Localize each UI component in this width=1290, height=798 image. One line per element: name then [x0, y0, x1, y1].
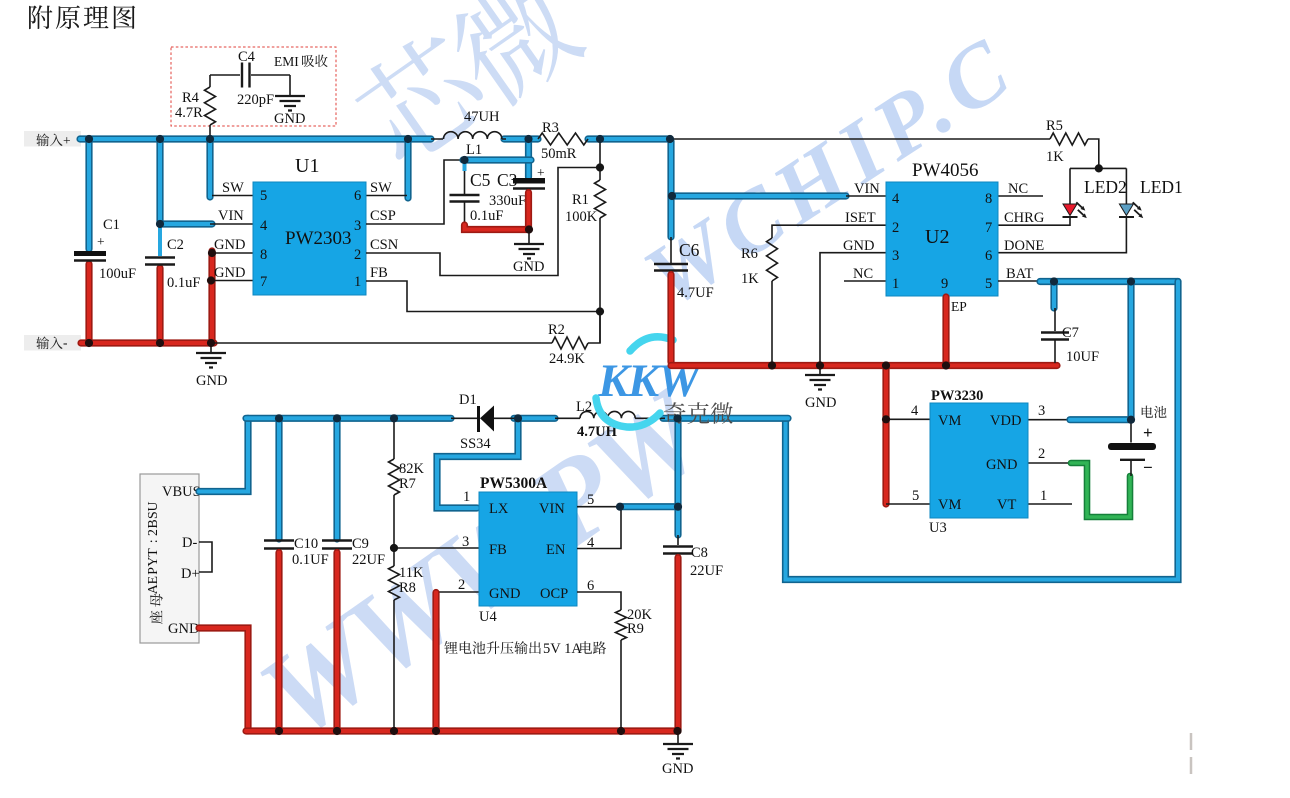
- svg-text:GND: GND: [196, 373, 227, 389]
- wire U2 VIN feed (blue): [671, 192, 846, 199]
- svg-text:3: 3: [892, 248, 899, 264]
- ground GND at input-: [210, 343, 212, 353]
- wire C7 stub (blue): [1050, 282, 1057, 309]
- svg-text:1: 1: [892, 276, 899, 292]
- svg-text:SW: SW: [370, 180, 392, 196]
- svg-text:CSN: CSN: [370, 237, 399, 253]
- svg-text:GND: GND: [805, 395, 836, 411]
- svg-text:PW2303: PW2303: [285, 228, 352, 249]
- svg-text:50mR: 50mR: [541, 146, 577, 162]
- svg-text:VM: VM: [938, 497, 961, 513]
- svg-text:VM: VM: [938, 413, 961, 429]
- thin wire NC pin8: [998, 195, 1043, 197]
- ground below C3: [528, 230, 530, 245]
- svg-text:R9: R9: [627, 621, 644, 637]
- lipo protection U3 PW3230: [930, 403, 1028, 518]
- svg-text:82K: 82K: [399, 461, 425, 477]
- thin wire VT pin1: [1028, 503, 1072, 505]
- svg-text:1: 1: [1040, 488, 1047, 504]
- thin wire VDD pin3: [1028, 419, 1072, 421]
- svg-text:+: +: [63, 133, 71, 148]
- diode D1 SS34: [451, 417, 516, 419]
- wire rail to R5 (thin): [669, 138, 1050, 140]
- svg-text:−: −: [1143, 458, 1153, 477]
- wire CSP tee horizontal (blue): [463, 156, 531, 163]
- title 附原理图: [29, 5, 135, 29]
- thin wire GND pin7: [211, 280, 253, 282]
- wire VDD to battery (blue): [1070, 416, 1129, 423]
- watermark WWW.PWCHIP.C diagonal: [237, 360, 734, 763]
- wire R5 to LED bus: [1070, 139, 1126, 168]
- inductor L2 4.7UH: [555, 417, 665, 419]
- wire C8 top from L2 node (blue): [674, 420, 681, 535]
- wire U1 GND pins (red): [208, 251, 215, 343]
- capacitor C9: [322, 541, 352, 549]
- svg-text:GND: GND: [489, 586, 520, 602]
- svg-text:VIN: VIN: [854, 181, 880, 197]
- wire VIN to C8 (blue): [620, 503, 678, 510]
- wire BAT bus (blue): [1040, 278, 1178, 285]
- svg-text:6: 6: [354, 188, 361, 204]
- svg-text:R2: R2: [548, 322, 565, 338]
- resistor R5 1K: [1050, 133, 1088, 145]
- D-/D+ stub bracket: [199, 542, 212, 572]
- wire USB GND (red): [199, 628, 248, 731]
- wire R2 run from input-: [214, 342, 552, 344]
- svg-text:L2: L2: [576, 399, 592, 415]
- capacitor C10: [264, 541, 294, 549]
- svg-text:4.7R: 4.7R: [175, 105, 203, 121]
- svg-text:5: 5: [912, 488, 919, 504]
- svg-text:GND: GND: [214, 237, 245, 253]
- svg-text:2: 2: [458, 577, 465, 593]
- svg-text:EP: EP: [951, 299, 967, 314]
- svg-text:6: 6: [985, 248, 992, 264]
- wire FB pin1 path: [366, 281, 600, 312]
- thin wire BAT pin5: [998, 280, 1040, 282]
- charger U2 PW4056: [886, 182, 998, 296]
- wire input+ blue rail: [80, 135, 431, 142]
- svg-text:GND: GND: [274, 111, 305, 127]
- svg-text:T: T: [145, 548, 160, 557]
- thin wire VIN pin4: [846, 195, 886, 197]
- svg-text:L1: L1: [466, 142, 482, 158]
- wire C2 bottom (red): [156, 268, 163, 343]
- svg-text:OCP: OCP: [540, 586, 568, 602]
- wire SW pin6 riser: [404, 139, 411, 198]
- battery 电池: [1142, 406, 1167, 418]
- wire rail segment after L1: [504, 135, 538, 142]
- svg-text:U: U: [145, 501, 160, 511]
- capacitor C8: [677, 535, 679, 545]
- page artifact marks: [1190, 733, 1193, 774]
- resistor R1 100K: [595, 180, 606, 218]
- wire C5 bottom to gnd (red): [465, 225, 529, 230]
- EMI snubber box (dashed): [171, 47, 336, 126]
- svg-text:SS34: SS34: [460, 436, 491, 452]
- wire LX feed (blue): [437, 420, 518, 508]
- svg-text:GND: GND: [513, 259, 544, 275]
- wire bottom blue rail: [246, 415, 451, 422]
- svg-text:GND: GND: [662, 761, 693, 777]
- capacitor C6: [670, 237, 672, 263]
- wire CSN pin2 path: [366, 168, 600, 276]
- wire R3 node down to R1: [599, 139, 601, 180]
- svg-text:R4: R4: [182, 90, 200, 106]
- svg-text:VBUS: VBUS: [162, 484, 201, 500]
- svg-text:2: 2: [892, 220, 899, 236]
- wire C10 bottom (red): [275, 553, 282, 732]
- wire C6 branch blue vertical: [667, 141, 674, 237]
- svg-text:C9: C9: [352, 536, 369, 552]
- svg-text:C3: C3: [497, 170, 518, 190]
- svg-text:0.1uF: 0.1uF: [167, 275, 200, 291]
- svg-text:VT: VT: [997, 497, 1016, 513]
- svg-text:330uF: 330uF: [489, 193, 526, 209]
- wire SW node tee (blue): [525, 141, 532, 177]
- svg-text:CSP: CSP: [370, 208, 396, 224]
- svg-text:LX: LX: [489, 501, 509, 517]
- LED2 (red): [1069, 168, 1071, 204]
- svg-text:5V 1A: 5V 1A: [543, 641, 582, 657]
- wire after D1 (blue): [514, 415, 555, 422]
- wire input- red rail: [81, 339, 214, 346]
- svg-text:1K: 1K: [1046, 149, 1064, 165]
- svg-text:NC: NC: [853, 266, 873, 282]
- wire R2 to FB node: [588, 312, 600, 344]
- thin wire GND pin2: [436, 591, 479, 593]
- svg-text:1: 1: [354, 274, 361, 290]
- svg-text:C2: C2: [167, 237, 184, 253]
- thin wire SW pin5: [212, 195, 253, 197]
- wire C2 top stub: [158, 226, 162, 256]
- wire L2 node to loop (blue): [663, 415, 788, 422]
- KKW logo swoosh arcs: [630, 337, 673, 351]
- wire battery + riser (blue): [1127, 282, 1134, 420]
- svg-text:C4: C4: [238, 49, 256, 65]
- wire C8 bottom (red): [674, 558, 681, 732]
- wire battery gnd (green): [1071, 463, 1130, 517]
- wire VBUS (blue): [199, 418, 248, 491]
- wire C1 branch (blue down): [85, 139, 92, 249]
- thin wire GND pin8: [211, 252, 253, 254]
- wire VIN feed: [160, 220, 212, 227]
- capacitor C2: [145, 258, 175, 265]
- svg-text:1: 1: [463, 489, 470, 505]
- resistor R3 50mR: [538, 133, 588, 145]
- svg-text:D+: D+: [181, 566, 200, 582]
- wire C6 bottom (red): [667, 275, 674, 363]
- svg-text:9: 9: [941, 276, 948, 292]
- wire mid red rail: [671, 362, 1057, 369]
- wire SW pin5 branch (blue down): [206, 139, 213, 197]
- wire C1 bottom (red): [85, 264, 92, 343]
- svg-text:11K: 11K: [399, 565, 424, 581]
- inductor L1 47UH: [431, 138, 506, 140]
- wire C10 branch (blue): [275, 418, 282, 539]
- svg-text:Y: Y: [145, 557, 160, 567]
- svg-text:R7: R7: [399, 476, 416, 492]
- ground bottom: [677, 731, 679, 744]
- resistor R2: [552, 337, 588, 349]
- LED1 (blue): [1125, 168, 1127, 204]
- svg-text:D1: D1: [459, 392, 477, 408]
- svg-text:+: +: [1143, 423, 1153, 442]
- svg-text:BAT: BAT: [1006, 266, 1034, 282]
- wire C5 stub (blue): [463, 160, 467, 171]
- wire bottom red rail: [246, 727, 677, 734]
- svg-text:GND: GND: [986, 457, 1017, 473]
- svg-text:U2: U2: [925, 226, 949, 248]
- svg-text:R8: R8: [399, 580, 416, 596]
- thin wire VM pin5: [886, 503, 930, 505]
- resistor R9 20K: [616, 610, 627, 640]
- thin wire VIN pin4: [210, 223, 253, 225]
- svg-text:U1: U1: [295, 155, 319, 177]
- svg-text:5: 5: [985, 276, 992, 292]
- svg-text:LED1: LED1: [1140, 177, 1183, 197]
- resistor R8 11K: [389, 566, 400, 600]
- svg-text:4: 4: [892, 191, 900, 207]
- svg-text:8: 8: [985, 191, 992, 207]
- svg-text:R6: R6: [741, 246, 758, 262]
- ground below U2: [805, 375, 835, 390]
- svg-text:4: 4: [911, 403, 919, 419]
- svg-text:-: -: [63, 335, 68, 350]
- svg-text:100K: 100K: [565, 209, 598, 225]
- connector USB2 TYPEA: [140, 474, 199, 643]
- thin wire EN pin4: [577, 508, 621, 549]
- svg-text:8: 8: [260, 247, 267, 263]
- svg-text:C1: C1: [103, 217, 120, 233]
- svg-text:FB: FB: [489, 542, 507, 558]
- svg-text:1K: 1K: [741, 271, 759, 287]
- wire EP pin9 (red): [942, 297, 949, 363]
- logo text 奇克微: [664, 402, 733, 424]
- svg-text:R5: R5: [1046, 118, 1063, 134]
- svg-text:C5: C5: [470, 170, 491, 190]
- svg-text:3: 3: [462, 534, 469, 550]
- svg-text:GND: GND: [168, 621, 199, 637]
- svg-text:C8: C8: [691, 545, 708, 561]
- svg-text:24.9K: 24.9K: [549, 351, 585, 367]
- svg-text:NC: NC: [1008, 181, 1028, 197]
- svg-text:FB: FB: [370, 265, 388, 281]
- wire C2/VIN branch (blue down): [156, 139, 163, 224]
- svg-text:A: A: [145, 584, 160, 594]
- node 输入+ label: [24, 131, 81, 147]
- svg-text:7: 7: [260, 274, 267, 290]
- svg-text:100uF: 100uF: [99, 266, 136, 282]
- svg-text:PW5300A: PW5300A: [480, 475, 548, 492]
- wire VM feed red vertical: [882, 366, 889, 505]
- resistor R4: [209, 75, 211, 136]
- capacitor C5: [464, 171, 466, 194]
- svg-text:SW: SW: [222, 180, 244, 196]
- op-amp/regulator U1 PW2303: [253, 182, 366, 295]
- wire U4 GND (red): [432, 593, 439, 730]
- thin wire FB pin3: [394, 547, 479, 549]
- wire CSP pin3 path: [366, 160, 463, 224]
- ground of C4: [289, 75, 291, 96]
- thin wire VM pin4: [886, 418, 930, 420]
- svg-text:GND: GND: [214, 265, 245, 281]
- svg-text:VIN: VIN: [539, 501, 565, 517]
- thin wire VIN pin5: [577, 506, 621, 508]
- svg-text:PW4056: PW4056: [912, 160, 979, 181]
- svg-text:B: B: [145, 519, 160, 528]
- wire C9 bottom (red): [333, 553, 340, 732]
- watermark CJK fragment top-left: [345, 0, 591, 172]
- wire C3 bottom (red): [525, 193, 532, 230]
- wire R7 branch: [393, 418, 395, 459]
- resistor R6 1K: [767, 238, 778, 281]
- svg-text:2: 2: [354, 247, 361, 263]
- wire rail segment after R3: [588, 135, 669, 142]
- svg-text:0.1uF: 0.1uF: [470, 208, 503, 224]
- svg-text::: :: [145, 539, 160, 543]
- svg-text:C10: C10: [294, 536, 318, 552]
- svg-text:3: 3: [1038, 403, 1045, 419]
- thin wire ISET pin2: [772, 225, 886, 238]
- svg-text:P: P: [145, 567, 160, 575]
- thin wire SW pin6 to riser: [366, 195, 407, 197]
- svg-text:GND: GND: [843, 238, 874, 254]
- svg-text:+: +: [97, 234, 105, 249]
- svg-text:47UH: 47UH: [464, 109, 500, 125]
- wire C9 branch (blue): [333, 418, 340, 539]
- svg-text:220pF: 220pF: [237, 92, 274, 108]
- node 输入- label: [24, 335, 81, 351]
- svg-text:22UF: 22UF: [352, 552, 385, 568]
- svg-text:R1: R1: [572, 192, 589, 208]
- logo lower swoosh: [596, 398, 660, 427]
- svg-text:5: 5: [587, 492, 594, 508]
- junction dots: [85, 135, 93, 143]
- svg-text:E: E: [145, 576, 160, 584]
- svg-text:10UF: 10UF: [1066, 349, 1099, 365]
- svg-text:4: 4: [260, 218, 268, 234]
- svg-text:C7: C7: [1062, 325, 1079, 341]
- svg-text:CHRG: CHRG: [1004, 210, 1045, 226]
- svg-text:EN: EN: [546, 542, 566, 558]
- svg-text:+: +: [537, 165, 545, 180]
- svg-text:3: 3: [354, 218, 361, 234]
- svg-text:5: 5: [260, 188, 267, 204]
- svg-text:R3: R3: [542, 120, 559, 136]
- thin wire GND pin3: [820, 253, 886, 375]
- capacitor C7: [1054, 308, 1056, 331]
- caption 锂电池升压输出5V 1A电路: [444, 641, 541, 654]
- svg-text:VIN: VIN: [218, 208, 244, 224]
- svg-text:4.7UF: 4.7UF: [677, 285, 714, 301]
- svg-text:DONE: DONE: [1004, 238, 1044, 254]
- svg-text:0.1UF: 0.1UF: [292, 552, 329, 568]
- capacitor C4: [210, 74, 290, 76]
- thin wire OCP pin6: [577, 592, 621, 610]
- thin wire GND pin2: [1028, 462, 1073, 464]
- svg-text:U4: U4: [479, 609, 497, 625]
- svg-text:S: S: [145, 511, 160, 519]
- svg-text:2: 2: [145, 529, 160, 536]
- wire boost return loop (blue): [786, 282, 1179, 580]
- svg-text:2: 2: [1038, 446, 1045, 462]
- svg-text:EMI: EMI: [274, 54, 299, 69]
- boost U4 PW5300A: [479, 492, 577, 606]
- svg-text:U3: U3: [929, 520, 947, 536]
- svg-text:LED2: LED2: [1084, 177, 1127, 197]
- svg-text:22UF: 22UF: [690, 563, 723, 579]
- svg-text:VDD: VDD: [990, 413, 1021, 429]
- svg-text:C6: C6: [679, 240, 700, 260]
- svg-text:PW3230: PW3230: [931, 388, 983, 404]
- resistor R7 82K: [389, 459, 400, 495]
- svg-text:D-: D-: [182, 535, 197, 551]
- svg-text:ISET: ISET: [845, 210, 876, 226]
- svg-text:7: 7: [985, 220, 992, 236]
- thin wire NC pin1: [844, 280, 886, 282]
